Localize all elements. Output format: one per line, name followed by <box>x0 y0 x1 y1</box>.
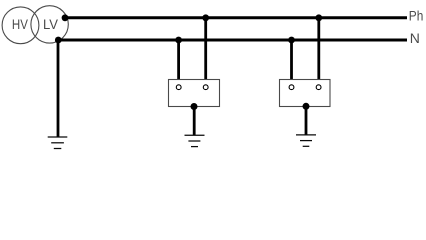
wire Ph drop to socket 1 <box>204 18 207 86</box>
socket outlet 1 body <box>169 80 220 107</box>
node socket 1 earth terminal <box>191 103 198 110</box>
transformer T1 HV winding <box>2 7 39 44</box>
wire socket 2 earth drop <box>305 106 308 135</box>
svg-text:N: N <box>410 30 420 46</box>
socket 2 terminal pin left <box>289 85 294 90</box>
wire phase bus Ph <box>65 16 407 19</box>
socket 2 terminal pin right <box>316 85 321 90</box>
wire neutral bus N <box>58 39 407 42</box>
wire N drop to socket 1 <box>177 40 180 86</box>
svg-text:LV: LV <box>43 16 59 32</box>
transformer T1 LV winding <box>31 6 68 43</box>
svg-text:HV: HV <box>12 16 29 32</box>
socket 1 terminal pin right <box>203 85 208 90</box>
node phase at transformer <box>62 14 69 21</box>
node neutral at transformer <box>55 37 62 44</box>
node N to socket 1 <box>175 37 182 44</box>
node socket 2 earth terminal <box>303 103 310 110</box>
wire neutral earth drop <box>57 40 60 137</box>
socket outlet 2 body <box>280 80 331 107</box>
node N to socket 2 <box>288 37 295 44</box>
ground transformer neutral earth <box>48 137 68 149</box>
wire socket 1 earth drop <box>193 107 196 136</box>
ground socket 2 earth <box>296 135 316 146</box>
wire Ph drop to socket 2 <box>317 18 320 86</box>
socket 1 terminal pin left <box>176 85 181 90</box>
svg-text:Ph: Ph <box>409 8 424 24</box>
wire N drop to socket 2 <box>290 40 293 86</box>
node Ph to socket 2 <box>315 14 322 21</box>
node Ph to socket 1 <box>202 14 209 21</box>
ground socket 1 earth <box>185 135 205 146</box>
